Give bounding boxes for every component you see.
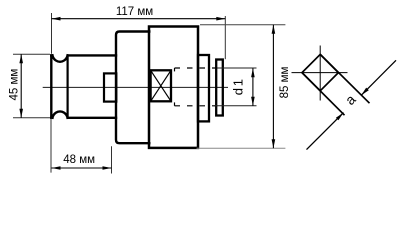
svg-text:48 мм: 48 мм [63,154,95,166]
svg-text:45 мм: 45 мм [9,69,21,101]
svg-text:117 мм: 117 мм [116,6,153,18]
svg-text:d1: d1 [231,77,246,95]
svg-text:85 мм: 85 мм [279,67,291,99]
